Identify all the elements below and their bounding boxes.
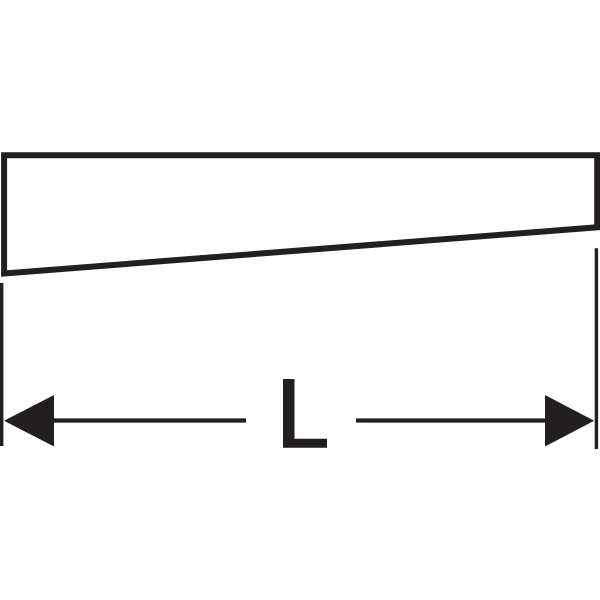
wedge outline — [4, 155, 597, 273]
right arrowhead — [545, 395, 594, 447]
dimension line right segment — [356, 418, 570, 422]
left arrowhead — [4, 395, 54, 447]
left extension line — [0, 283, 3, 446]
right extension line — [595, 248, 598, 449]
label L — [283, 379, 327, 448]
dimension line left segment — [30, 418, 246, 422]
